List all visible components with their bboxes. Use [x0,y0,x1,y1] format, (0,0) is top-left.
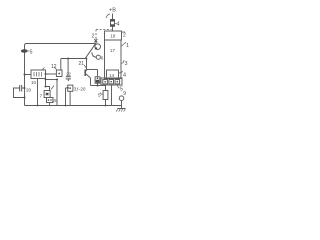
wire resistor 15 to bus [105,100,107,106]
label 5 strip leader [118,85,120,88]
label 6 (contact) [101,56,104,61]
wire PI horizontal y=58 [61,58,87,60]
svg-text:15: 15 [52,98,57,103]
wire x37 drop from box10 to bus [37,79,39,106]
node junction x24 y97 [24,97,26,99]
wire x45 drop y73-86 [45,74,47,87]
terminal strip 15 [101,78,122,85]
label 21 [79,61,85,67]
wire Q2 collector horizontal y=69 [87,69,98,71]
terminal 9 circle [119,96,124,101]
svg-text:12: 12 [51,64,57,70]
svg-text:5: 5 [98,93,101,99]
wire box7 to bus [49,103,51,106]
label 10 [31,80,37,85]
bead 5 on left wire [21,49,28,52]
box 7 (upper) [44,91,50,98]
svg-text:3ƒ-20: 3ƒ-20 [74,87,86,92]
wire to box 10 [25,74,32,76]
wire x65 vertical to bus [65,88,67,106]
node bus junction x105 [105,105,107,107]
svg-text:5: 5 [30,49,33,55]
svg-text:10: 10 [31,80,37,85]
wire +B vertical drop x=112 [112,14,114,32]
contact 6 circle [96,55,100,59]
svg-text:18: 18 [111,33,116,38]
wire bottom link y=85 x90-105 [91,85,106,87]
box 17 (tall relay box) [105,40,122,79]
svg-text:17: 17 [110,48,115,53]
wire x67.6 vertical to cap22 [67,59,69,77]
wire x61 vertical box12 to PI [60,59,62,71]
wire terminal to ground [121,101,123,109]
transistor Q1 circle [95,44,101,50]
svg-text:2: 2 [92,34,95,40]
wire top horizontal y=43 [27,43,96,45]
svg-text:3: 3 [125,61,128,67]
svg-text:14: 14 [109,73,114,78]
label 3 leader at supply wire [106,14,110,18]
svg-text:+B: +B [109,8,116,14]
label 3f-20 [74,87,86,92]
label 2 (dashed link) [92,34,95,40]
wire branch y=79 [46,79,58,81]
node junction x24 y74 [24,74,26,76]
wire x97 vertical y69-85 [97,70,99,77]
wire ground bus y=105 [25,105,122,107]
svg-text:22: 22 [66,72,71,77]
label 7 [40,93,43,98]
node junction x45 y79 [45,79,47,81]
label 12 leader [54,67,57,70]
wire x86 vertical y58-70 [86,59,88,71]
label 9 (terminal) [123,91,126,97]
wire box to bus x69.6 [69,91,71,105]
wire link x65 to box [66,87,68,89]
wire x57.5 to bus [56,80,58,106]
wire Q1 tick to top wire [94,39,97,44]
svg-text:4: 4 [117,22,120,28]
svg-text:4: 4 [123,73,126,79]
svg-text:21: 21 [79,61,85,67]
svg-text:20: 20 [26,88,32,93]
component 3f-20 box [68,85,73,91]
node bus junction x65 [65,105,67,107]
dashed link vertical x=95.5 [95,30,97,41]
node +B supply label [109,8,116,14]
contact 6 hook [92,52,96,57]
label 2 leader top-right box [122,31,126,33]
wire capacitor 19 to node [97,83,99,85]
label 4 leader inner box [119,71,123,73]
box 10 (potentiometer) [31,68,46,79]
label 15 [52,98,57,103]
node junction x24 y87.5 [24,87,26,89]
wire jog to box 7 [46,87,50,91]
label 20 [26,88,32,93]
node junction x67.6 y58 [67,58,69,60]
label 22 [66,72,71,77]
node junction x45 y86 [45,86,47,88]
node junction x97 y85 [97,85,99,87]
label 4 (fuse) [117,22,120,28]
label 18 leader [51,86,54,90]
wire box10 right to box12 y=73.5 [45,73,56,75]
label 5 resistor leader [101,93,104,95]
wire x111 strip drop to bus [111,85,113,106]
label 3 leader right edge [121,60,124,63]
label 4 leader (fuse) [115,23,117,25]
svg-text:9: 9 [123,91,126,97]
wire x105 strip drop [105,85,107,91]
box 18 (top-right small box) [105,31,122,40]
label 21 leader [84,65,87,68]
svg-text:2: 2 [123,33,126,39]
label 1 leader [122,42,127,46]
fuse 4 on supply wire [111,20,115,27]
node junction x67.3 y87.4 [67,87,69,89]
transistor Q2 [85,70,90,79]
transistor Q1 chopper arm diagonal [85,43,96,58]
node junction x45 y73.5 [45,73,47,75]
capacitor 19 (small box on x97) [95,77,100,83]
resistor 15 (box on x105) [103,91,108,100]
wire left vertical x=24 [25,44,27,106]
node junction x86 y58 [86,58,88,60]
node junction x57.5 y79 [56,79,58,81]
box 14 (inner box) [107,70,119,79]
svg-text:7: 7 [40,93,43,98]
box 7 lower [47,98,54,103]
capacitor 22 [66,77,71,79]
box 12 (contact) [56,70,62,77]
node bus junction x37 [37,105,39,107]
svg-text:1: 1 [126,43,129,49]
dashed link horizontal y=29 [96,29,112,31]
svg-text:6: 6 [101,56,104,61]
wire Q2 emitter drop x90 [90,78,92,86]
ground symbol [116,109,125,112]
capacitor 20 bypass loop [14,85,25,98]
label 5 (bead) [28,50,29,52]
